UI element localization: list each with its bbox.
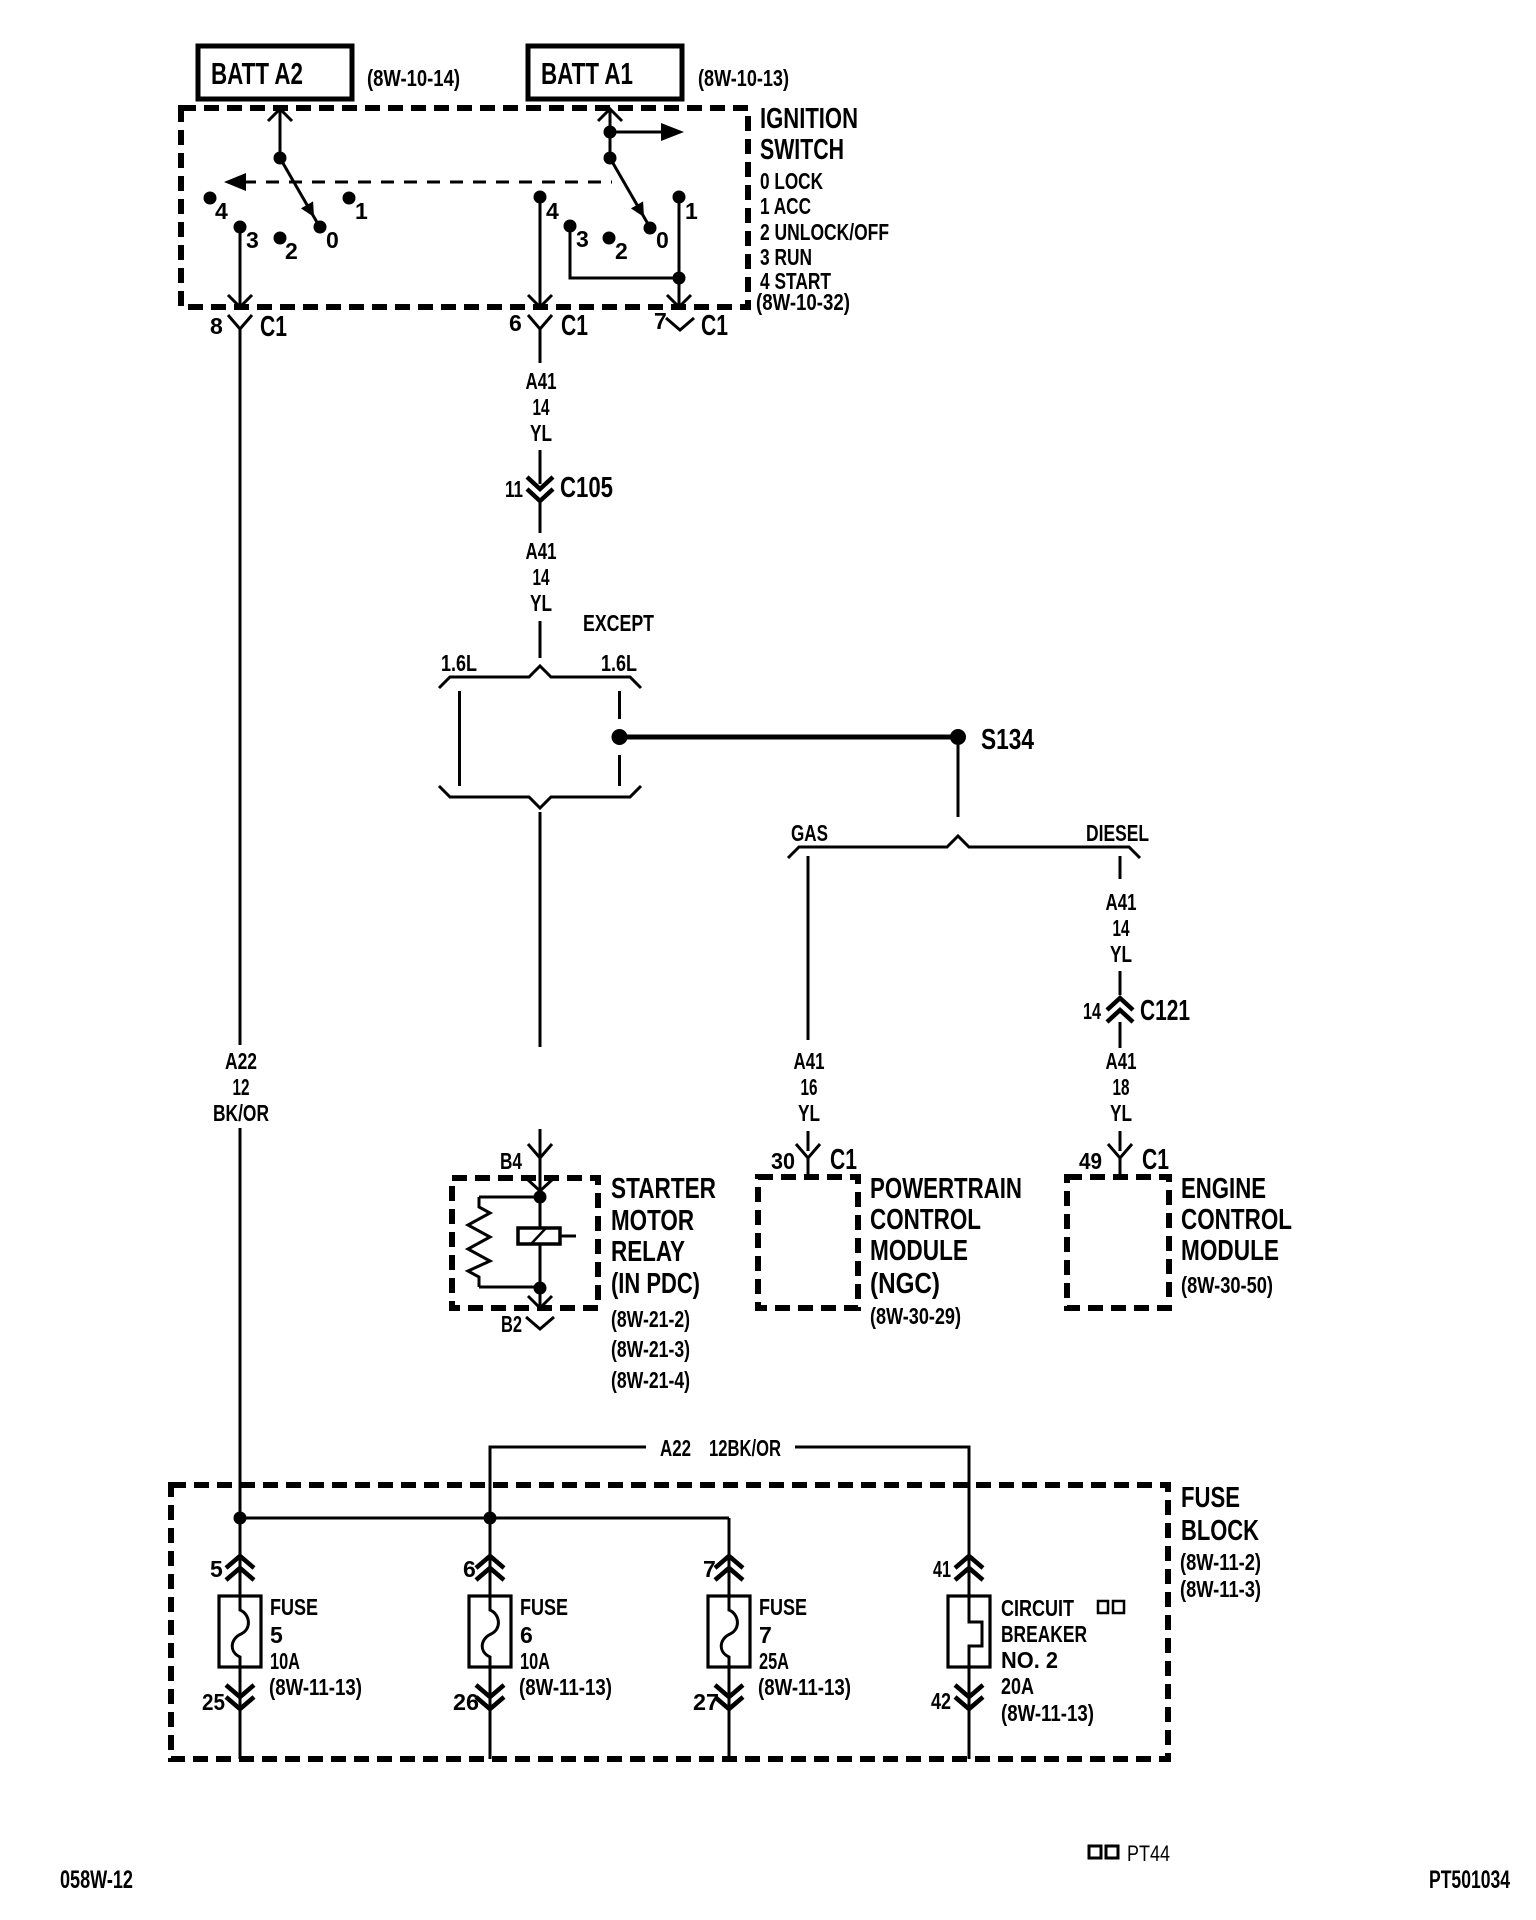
svg-text:7: 7 <box>654 308 667 334</box>
svg-text:12BK/OR: 12BK/OR <box>709 1435 781 1461</box>
wire from split to starter relay <box>539 812 542 1047</box>
wire diesel branch to ECM <box>1119 1131 1122 1151</box>
svg-text:FUSE: FUSE <box>1181 1482 1240 1514</box>
svg-text:26: 26 <box>453 1689 479 1715</box>
fuse block dashed box <box>171 1485 1168 1759</box>
wire into engine split <box>539 621 542 658</box>
svg-text:C1: C1 <box>830 1144 857 1176</box>
connector pin 6 C1 <box>509 310 588 345</box>
svg-text:1 ACC: 1 ACC <box>760 193 811 219</box>
svg-text:FUSE: FUSE <box>270 1594 318 1620</box>
powertrain control module name label <box>870 1173 1022 1329</box>
wire label A41 18 YL diesel lower <box>1106 1048 1137 1126</box>
svg-text:0 LOCK: 0 LOCK <box>760 168 823 194</box>
svg-text:EXCEPT: EXCEPT <box>583 610 654 636</box>
svg-text:A41: A41 <box>794 1048 825 1074</box>
circuit breaker CB2 <box>948 1596 990 1667</box>
svg-text:(8W-11-13): (8W-11-13) <box>1001 1700 1094 1726</box>
wire through relay coil <box>539 1191 542 1288</box>
wire from resistor bottom to relay bottom node <box>479 1286 540 1289</box>
svg-text:FUSE: FUSE <box>759 1594 807 1620</box>
right switch pivot dot <box>604 152 617 165</box>
svg-text:2: 2 <box>285 238 298 264</box>
gas branch wire <box>807 856 810 1040</box>
svg-text:YL: YL <box>530 590 552 616</box>
starter motor relay dashed box U1 <box>452 1178 598 1308</box>
svg-text:42: 42 <box>931 1688 951 1714</box>
svg-text:20A: 20A <box>1001 1673 1034 1699</box>
svg-text:49: 49 <box>1079 1148 1102 1174</box>
svg-text:C1: C1 <box>701 310 728 342</box>
switch position legend <box>756 168 889 315</box>
diesel branch wire <box>1119 856 1122 879</box>
svg-text:1.6L: 1.6L <box>441 650 477 676</box>
svg-text:BATT A2: BATT A2 <box>211 56 303 91</box>
left switch contact 4 <box>204 192 229 225</box>
svg-text:CONTROL: CONTROL <box>1181 1204 1292 1236</box>
relay top node dot <box>534 1191 547 1204</box>
connector 11 C105 <box>505 472 613 533</box>
wire A22 feed into fuse block <box>490 1447 969 1556</box>
svg-text:(8W-30-29): (8W-30-29) <box>870 1303 961 1329</box>
svg-text:C1: C1 <box>1142 1144 1169 1176</box>
svg-text:A22: A22 <box>225 1048 257 1074</box>
fuse F5 value label <box>269 1594 362 1700</box>
svg-text:7: 7 <box>759 1622 772 1648</box>
svg-text:1.6L: 1.6L <box>601 650 637 676</box>
svg-text:MODULE: MODULE <box>1181 1235 1279 1267</box>
fuse F7 <box>708 1596 750 1667</box>
connector pin 25 <box>202 1667 254 1759</box>
svg-text:(IN PDC): (IN PDC) <box>611 1268 700 1300</box>
left switch contact 3 <box>234 221 259 254</box>
engine control module name label <box>1181 1173 1292 1298</box>
right switch feed dot and arrow to accessories <box>604 123 685 141</box>
connector pin 5 <box>210 1518 254 1597</box>
junction dot node <box>673 272 686 285</box>
left switch contact 0 <box>314 221 339 254</box>
svg-text:(8W-11-13): (8W-11-13) <box>758 1674 851 1700</box>
wire label A22 12 BK/OR <box>213 1048 269 1126</box>
svg-text:(8W-11-13): (8W-11-13) <box>519 1674 612 1700</box>
wire from right contact 4 to pin 6 <box>528 203 552 307</box>
wire label A41 16 YL gas <box>794 1048 825 1126</box>
svg-text:2 UNLOCK/OFF: 2 UNLOCK/OFF <box>760 219 889 245</box>
svg-text:BLOCK: BLOCK <box>1181 1515 1259 1547</box>
svg-text:PT44: PT44 <box>1127 1841 1170 1866</box>
svg-text:FUSE: FUSE <box>520 1594 568 1620</box>
bus junction dot left <box>234 1512 247 1525</box>
label EXCEPT 1.6L <box>583 610 654 676</box>
svg-text:2: 2 <box>615 238 628 264</box>
engine control module dashed box <box>1067 1177 1169 1308</box>
svg-text:PT501034: PT501034 <box>1429 1866 1510 1894</box>
fuse F7 value label <box>758 1594 851 1700</box>
svg-text:ENGINE: ENGINE <box>1181 1173 1266 1205</box>
connector 14 C121 <box>1083 995 1190 1048</box>
svg-text:5: 5 <box>210 1556 223 1582</box>
connector pin 8 C1 <box>210 311 287 345</box>
powertrain control module dashed box <box>758 1177 858 1308</box>
svg-text:14: 14 <box>1083 998 1101 1024</box>
svg-text:5: 5 <box>270 1622 283 1648</box>
svg-text:STARTER: STARTER <box>611 1173 716 1205</box>
svg-text:3 RUN: 3 RUN <box>760 244 812 270</box>
connector pin 41 <box>933 1556 983 1597</box>
svg-text:1: 1 <box>685 198 698 224</box>
footer connector key PT44 <box>1089 1841 1170 1866</box>
splice dot on except-1.6L branch <box>612 729 628 745</box>
svg-text:YL: YL <box>1110 1100 1132 1126</box>
svg-text:3: 3 <box>576 226 589 252</box>
wire from pin 6 down <box>539 345 542 363</box>
wire from right contact 1 down <box>678 203 681 278</box>
svg-text:MODULE: MODULE <box>870 1235 968 1267</box>
right switch contact 1 <box>673 191 699 225</box>
ignition switch name label <box>760 103 858 166</box>
connector pin 7 C1 <box>654 308 728 342</box>
wire into connector C105 <box>539 450 542 484</box>
svg-text:BK/OR: BK/OR <box>213 1100 269 1126</box>
battery feed box BATT A1 <box>528 46 682 99</box>
svg-text:YL: YL <box>530 420 552 446</box>
wire from BATT A2 to left switch pivot <box>268 109 292 158</box>
svg-text:B4: B4 <box>500 1148 522 1174</box>
svg-text:DIESEL: DIESEL <box>1086 820 1149 846</box>
ignition switch dashed box <box>181 108 748 307</box>
circuit breaker value label <box>1001 1595 1094 1726</box>
wire label A22 12BK/OR <box>660 1435 781 1461</box>
svg-text:(8W-21-4): (8W-21-4) <box>611 1367 690 1393</box>
svg-text:(8W-30-50): (8W-30-50) <box>1181 1272 1273 1298</box>
wire from right contact 3 to junction <box>570 232 679 278</box>
right switch contact 3 <box>564 220 589 253</box>
left switch contact 2 <box>274 232 298 265</box>
svg-text:A41: A41 <box>1106 889 1137 915</box>
svg-text:SWITCH: SWITCH <box>760 134 844 166</box>
fuse F6 value label <box>519 1594 612 1700</box>
svg-text:C1: C1 <box>561 310 588 342</box>
svg-text:S134: S134 <box>981 724 1034 756</box>
svg-text:(8W-10-14): (8W-10-14) <box>367 65 460 91</box>
svg-text:IGNITION: IGNITION <box>760 103 858 135</box>
svg-text:B2: B2 <box>501 1311 522 1337</box>
wire from junction to pin 7 <box>667 278 691 307</box>
svg-text:(8W-11-3): (8W-11-3) <box>1180 1576 1261 1602</box>
wire from S134 down to fuel split <box>957 745 960 817</box>
wire into connector C121 <box>1119 971 1122 995</box>
svg-text:30: 30 <box>771 1148 795 1174</box>
svg-text:BREAKER: BREAKER <box>1001 1621 1087 1647</box>
engine split top brace <box>439 666 641 688</box>
svg-text:C1: C1 <box>260 311 287 343</box>
except 1.6L branch wire <box>618 691 621 719</box>
connector B4 into relay <box>500 1129 553 1191</box>
wire to pin B2 <box>528 1288 552 1308</box>
svg-text:6: 6 <box>463 1556 476 1582</box>
starter motor relay name label <box>611 1173 716 1393</box>
svg-text:6: 6 <box>509 310 522 336</box>
svg-text:POWERTRAIN: POWERTRAIN <box>870 1173 1022 1205</box>
svg-text:8: 8 <box>210 313 223 339</box>
svg-text:(8W-21-3): (8W-21-3) <box>611 1336 690 1362</box>
battery feed box BATT A2 <box>198 46 352 99</box>
wire to resistor branch <box>479 1196 540 1199</box>
svg-text:27: 27 <box>693 1689 719 1715</box>
svg-text:16: 16 <box>801 1074 818 1100</box>
svg-text:14: 14 <box>533 564 550 590</box>
svg-text:GAS: GAS <box>791 820 828 846</box>
PT44 marker squares beside circuit breaker <box>1098 1601 1124 1613</box>
svg-text:0: 0 <box>656 227 669 253</box>
svg-text:BATT A1: BATT A1 <box>541 56 633 91</box>
svg-text:A41: A41 <box>526 538 557 564</box>
svg-text:1: 1 <box>355 198 368 224</box>
svg-text:CONTROL: CONTROL <box>870 1204 981 1236</box>
left switch pivot dot <box>274 152 287 165</box>
svg-text:12: 12 <box>233 1074 250 1100</box>
svg-text:25: 25 <box>202 1689 225 1715</box>
fuse F6 <box>469 1596 511 1667</box>
right switch movable arm <box>610 158 648 224</box>
wire label A41 14 YL diesel <box>1106 889 1137 967</box>
splice bus wire to S134 <box>620 735 958 740</box>
right switch contact 0 <box>644 222 669 254</box>
svg-text:(8W-10-32): (8W-10-32) <box>756 289 850 315</box>
svg-text:C121: C121 <box>1140 995 1190 1027</box>
svg-text:14: 14 <box>1113 915 1130 941</box>
svg-text:11: 11 <box>505 476 523 502</box>
fuse block bus wire <box>240 1517 729 1520</box>
svg-text:14: 14 <box>533 394 550 420</box>
wire label A41 14 YL upper <box>526 368 557 446</box>
svg-text:6: 6 <box>520 1622 533 1648</box>
wire label A41 14 YL lower <box>526 538 557 616</box>
svg-text:C105: C105 <box>560 472 613 504</box>
connector pin 6 <box>463 1518 504 1597</box>
svg-text:058W-12: 058W-12 <box>60 1866 133 1894</box>
svg-text:(8W-11-2): (8W-11-2) <box>1180 1549 1261 1575</box>
connector B2 below relay <box>501 1311 554 1337</box>
wire from contact 3 to pin 8 <box>228 233 252 307</box>
svg-text:10A: 10A <box>520 1648 550 1674</box>
1.6L branch wire <box>458 691 461 786</box>
svg-text:A41: A41 <box>526 368 557 394</box>
svg-text:10A: 10A <box>270 1648 300 1674</box>
wire from BATT A1 to right switch <box>598 109 622 158</box>
splice S134 <box>950 724 1034 756</box>
svg-text:(8W-10-13): (8W-10-13) <box>698 65 789 91</box>
svg-text:CIRCUIT: CIRCUIT <box>1001 1595 1074 1621</box>
svg-text:3: 3 <box>246 227 259 253</box>
resistor element inside relay <box>468 1197 490 1287</box>
svg-text:MOTOR: MOTOR <box>611 1205 694 1237</box>
detent dashed line with left arrow <box>224 173 612 191</box>
svg-text:A41: A41 <box>1106 1048 1137 1074</box>
svg-text:(NGC): (NGC) <box>870 1268 940 1300</box>
svg-text:18: 18 <box>1113 1074 1130 1100</box>
right switch contact 2 <box>603 232 628 265</box>
right switch contact 4 <box>534 191 560 225</box>
wire A22 left run from pin 8 to fuse block <box>239 345 242 1518</box>
svg-text:0: 0 <box>326 227 339 253</box>
svg-text:25A: 25A <box>759 1648 789 1674</box>
svg-text:RELAY: RELAY <box>611 1236 685 1268</box>
left switch movable arm <box>280 158 318 224</box>
wire bus to fuse 7 <box>728 1518 731 1556</box>
relay coil symbol <box>518 1228 576 1244</box>
relay bottom node dot <box>534 1282 547 1295</box>
connector pin 49 C1 at ECM <box>1079 1144 1169 1176</box>
svg-text:4: 4 <box>546 198 559 224</box>
connector pin 7 <box>703 1556 743 1597</box>
svg-text:(8W-11-13): (8W-11-13) <box>269 1674 362 1700</box>
connector pin 30 C1 at PCM <box>771 1144 857 1176</box>
fuse block name label <box>1180 1482 1261 1602</box>
svg-text:4: 4 <box>215 198 228 224</box>
fuse F5 <box>219 1596 261 1667</box>
svg-text:41: 41 <box>933 1556 951 1582</box>
svg-text:A22: A22 <box>660 1435 691 1461</box>
svg-text:YL: YL <box>1110 941 1132 967</box>
wire gas branch to PCM <box>807 1131 810 1151</box>
svg-text:NO. 2: NO. 2 <box>1001 1647 1058 1673</box>
svg-text:YL: YL <box>798 1100 820 1126</box>
left switch contact 1 <box>343 192 369 225</box>
gas/diesel split brace <box>788 836 1140 858</box>
connector pin 27 <box>693 1667 743 1759</box>
connector pin 26 <box>453 1667 504 1759</box>
engine split bottom brace <box>439 786 641 808</box>
svg-text:(8W-21-2): (8W-21-2) <box>611 1306 690 1332</box>
connector pin 42 <box>931 1667 983 1759</box>
bus junction dot center <box>484 1512 497 1525</box>
